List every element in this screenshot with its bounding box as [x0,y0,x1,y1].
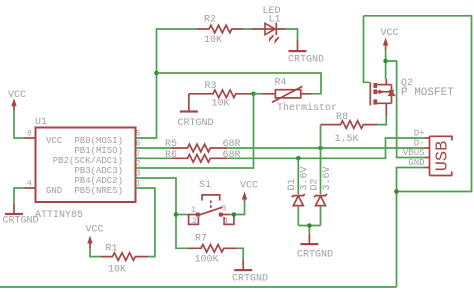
wire VCC to U1 pin 8 [14,110,24,138]
svg-text:VCC: VCC [240,181,258,192]
U1 pin 5 stub [136,130,148,139]
svg-text:6: 6 [136,140,141,149]
USB pin D- [414,139,430,149]
svg-text:CRTGND: CRTGND [3,216,39,227]
wire junction to R4 left [254,93,263,95]
wire PB1 to R5 [147,147,172,149]
svg-text:4: 4 [27,180,32,189]
svg-text:7: 7 [136,150,141,159]
resistor R7 100K [188,234,237,266]
zener diode D2 3.6V [310,148,334,226]
supply VCC arrow at switch [240,181,258,202]
svg-text:10K: 10K [204,35,222,46]
wire D+ net: R6 right with jog up to USB D+ [227,138,425,158]
svg-text:R2: R2 [204,15,216,26]
svg-text:68R: 68R [223,150,241,161]
svg-text:GND: GND [408,158,424,168]
svg-text:VCC: VCC [86,225,104,236]
svg-text:VCC: VCC [381,28,399,39]
svg-text:R8: R8 [336,112,348,123]
resistor R2 [197,15,243,47]
svg-text:D+: D+ [414,129,425,139]
wire R7 right to ground [237,248,243,259]
connector USB [430,136,453,175]
wire Q2 drain jog to R8 [377,116,386,125]
svg-text:3: 3 [136,170,141,179]
svg-text:R7: R7 [195,234,207,245]
U1 pin 7 stub [136,150,148,159]
svg-text:ATTINY85: ATTINY85 [35,210,83,221]
junction zener GND [307,223,312,228]
resistor R3 [189,81,254,110]
junction PB0/rail [154,71,159,76]
wire D- net: R5 to USB D- [227,147,425,149]
supply VCC arrow at R1 [86,225,104,249]
junction GND/gate loop [394,189,399,194]
wire LED cathode down [286,29,298,40]
svg-text:5: 5 [136,130,141,139]
svg-text:U1: U1 [35,117,47,128]
junction D+/D1 [296,156,301,161]
svg-text:PB3(ADC3): PB3(ADC3) [74,166,123,176]
svg-text:CRTGND: CRTGND [297,250,333,261]
svg-text:4: 4 [223,217,228,226]
svg-text:R1: R1 [106,244,118,255]
wire PB0 net: pin5 up to R2 and rail [147,29,197,138]
ground CRTGND below R3 [178,94,214,129]
ground CRTGND below R7 [232,260,268,285]
svg-text:2: 2 [192,217,197,226]
ground CRTGND below zeners [297,234,333,261]
wire USB GND down to bottom rail [397,168,425,288]
svg-text:PB1(MISO): PB1(MISO) [74,146,123,156]
svg-text:R3: R3 [205,81,217,92]
wire VCC down to Q2 source and VBUS branch [385,49,387,79]
svg-text:PB4(ADC2): PB4(ADC2) [74,176,123,186]
svg-text:VCC: VCC [46,136,63,146]
junction R3/R4/ADC3 [251,92,256,97]
svg-text:1: 1 [191,206,196,215]
junction switch pin 4 bracket [232,212,237,217]
IC U1 ATTINY85 [35,117,136,221]
wire R8 left down to D- line [320,125,322,148]
svg-text:R4: R4 [275,78,287,89]
svg-text:R5: R5 [165,139,177,150]
svg-text:Thermistor: Thermistor [277,102,337,114]
svg-text:1.5K: 1.5K [335,134,359,145]
svg-text:D1: D1 [287,178,298,190]
U1 pin 2 stub [136,160,148,169]
U1 pin 3 stub [136,170,148,179]
zener diode D1 3.6V [287,158,311,225]
wire junction to switch pin 1 [176,214,189,216]
wire PB3 net: pin 3 down to switch and R7 [147,178,188,248]
svg-text:10K: 10K [108,265,126,276]
resistor R5 68R [165,139,241,152]
svg-text:VCC: VCC [8,90,26,101]
svg-text:CRTGND: CRTGND [288,55,324,66]
switch S1 [189,180,234,226]
resistor R1 10K [101,244,149,276]
wire top rail / right edge GND loop [364,16,472,192]
svg-text:L1: L1 [269,15,281,26]
thermistor R4 [262,78,337,115]
junction D-/R8/D2 [318,146,323,151]
U1 pin 6 stub [136,140,148,149]
wire ADC3: junction down to U1 pin 2 [147,94,254,168]
resistor R8 1.5K [321,112,378,145]
svg-text:1: 1 [136,180,141,189]
USB pin GND [408,158,429,168]
supply VCC arrow top-left [8,90,26,111]
wire PB2 to R6 [147,157,172,159]
svg-text:PB5(NRES): PB5(NRES) [74,186,123,196]
svg-text:R6: R6 [165,150,177,161]
supply VCC arrow top-right [381,28,399,50]
svg-text:PB2(SCK/ADC1): PB2(SCK/ADC1) [53,156,123,166]
junction VCC split [383,59,388,64]
ground CRTGND below LED [288,40,324,66]
U1 pin 4 (GND) stub [24,180,36,189]
wire R2 to LED [243,28,252,30]
svg-text:P MOSFET: P MOSFET [401,87,454,99]
wire rail to thermistor R4 [157,73,322,94]
svg-text:D2: D2 [310,178,321,190]
svg-text:PB0(MOSI): PB0(MOSI) [74,136,123,146]
svg-text:D-: D- [414,139,425,149]
svg-text:3: 3 [222,205,227,214]
wire VBUS net: VCC branch down to USB VBUS [386,61,425,158]
svg-text:8: 8 [27,130,32,139]
svg-text:USB: USB [434,141,453,172]
svg-text:3.6V: 3.6V [322,166,333,190]
LED L1 [252,6,286,44]
wire R1 left to VCC [90,248,101,257]
svg-text:CRTGND: CRTGND [232,274,268,285]
svg-text:10K: 10K [212,99,230,110]
junction PB3/switch [174,212,179,217]
svg-text:2: 2 [136,160,141,169]
wire zener commons [298,226,320,234]
USB pin D+ [414,129,430,139]
U1 pin 8 (VCC) stub [24,130,36,139]
wire switch pin 3 to VCC [230,201,245,215]
resistor R6 68R [165,150,241,162]
svg-text:GND: GND [46,186,62,196]
svg-text:100K: 100K [195,254,219,265]
ground CRTGND below U1 pin 4 [3,188,39,227]
svg-text:VBUS: VBUS [403,148,425,158]
wire gate net from top rail [364,16,370,83]
svg-text:S1: S1 [199,180,211,191]
wire PB5 net: pin 1 down to R1 [147,188,155,257]
USB pin VBUS [403,148,430,158]
U1 pin 1 stub [136,180,148,189]
transistor Q2 P MOSFET [370,78,454,116]
svg-text:CRTGND: CRTGND [178,118,214,129]
